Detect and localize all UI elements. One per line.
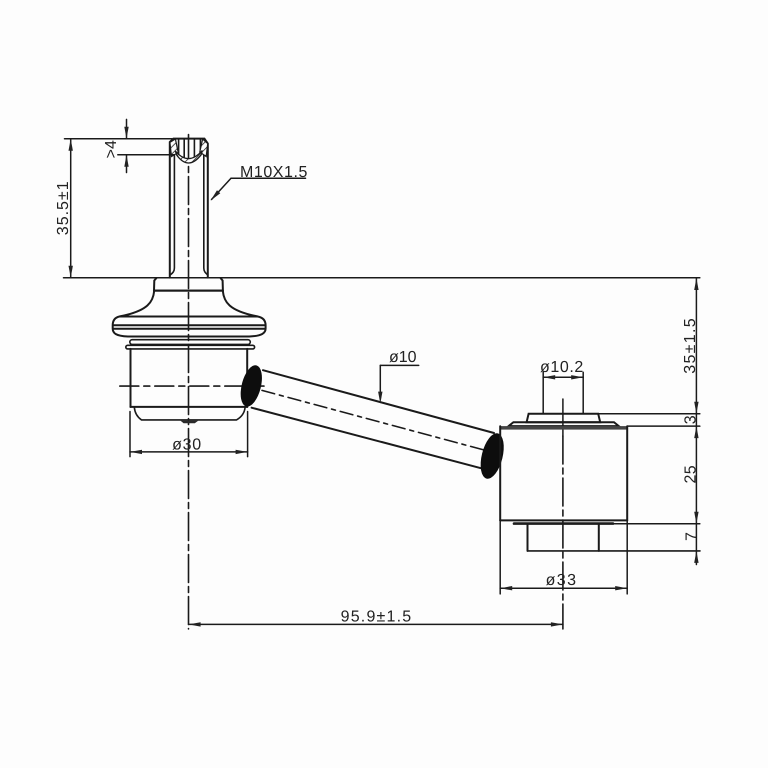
- svg-text:3: 3: [683, 415, 700, 424]
- housing bottom cap: [134, 407, 245, 420]
- housing cylinder bottom line: [130, 406, 247, 408]
- centerline vertical ball stud: [188, 135, 190, 629]
- bottom nub: [180, 421, 198, 424]
- collar bottom line: [154, 290, 223, 292]
- housing cylinder right side: [246, 349, 248, 407]
- svg-text:25: 25: [683, 465, 700, 483]
- bushing pin black ellipse right: [476, 431, 507, 481]
- svg-text:ø10: ø10: [389, 349, 417, 366]
- boot bell right curve: [223, 291, 258, 317]
- lower block right: [598, 524, 600, 551]
- housing cylinder left side: [130, 349, 132, 407]
- dimension ø10.2: [543, 376, 583, 378]
- dimension ø33 ext lines: [499, 520, 501, 594]
- svg-text:95.9±1.5: 95.9±1.5: [341, 609, 413, 626]
- collar block: [154, 278, 223, 291]
- lower block left: [527, 524, 529, 551]
- extension line for >4: [118, 154, 175, 156]
- link rod top line: [263, 370, 494, 433]
- stud thread outer profile: [170, 139, 208, 278]
- svg-text:35±1.5: 35±1.5: [682, 317, 699, 374]
- top extension line stud top: [65, 138, 173, 140]
- centerline horizontal ball housing: [120, 385, 264, 387]
- leader ø10: [380, 364, 418, 366]
- dimension 35.5±1 line: [70, 139, 72, 278]
- stud top right chamfer hatch: [200, 139, 208, 157]
- dimension ø33 line: [500, 587, 627, 589]
- svg-text:ø10.2: ø10.2: [540, 359, 584, 376]
- long shared extension line y=277.7: [64, 277, 700, 279]
- link rod bottom line: [252, 408, 485, 470]
- dimension 95.9±1.5 line: [189, 623, 563, 625]
- right bushing centerline: [562, 399, 564, 436]
- dimension ø30 ext lines: [129, 412, 131, 457]
- bushing cylinder bottom line: [500, 519, 627, 521]
- stud top left chamfer hatch: [170, 139, 178, 157]
- rim line upper: [113, 324, 265, 326]
- clamp ring 2: [126, 345, 255, 349]
- lower block bottom line extends to chain: [528, 550, 701, 552]
- bushing cylinder right side: [626, 426, 628, 520]
- bushing cylinder left side: [499, 426, 501, 520]
- right chain dimension line: [695, 278, 697, 565]
- leader M10X1.5: [231, 177, 306, 179]
- svg-text:35.5±1: 35.5±1: [55, 180, 72, 235]
- svg-text:ø33: ø33: [546, 572, 578, 589]
- dimension ø30 line: [130, 451, 248, 453]
- svg-text:ø30: ø30: [172, 436, 202, 453]
- bushing top dark band: [500, 426, 627, 430]
- ball pin black ellipse left: [237, 363, 266, 409]
- svg-text:7: 7: [684, 532, 701, 541]
- boot rim torus: [113, 317, 266, 337]
- stud top spline lines: [179, 139, 201, 159]
- boot bell left curve: [120, 291, 154, 317]
- stud cone bowl hatch: [175, 151, 202, 164]
- bushing cap step 1: [527, 414, 601, 422]
- right chain extension lines: [599, 413, 700, 415]
- right bushing stud sides / ext lines: [542, 372, 544, 413]
- link rod centerline: [262, 390, 498, 453]
- dimension >4 lines: [126, 119, 128, 138]
- bushing bottom dark line: [514, 522, 613, 525]
- stud thread inner lines: [171, 155, 175, 275]
- bushing cap step 2: [509, 422, 619, 426]
- svg-text:>4: >4: [103, 140, 120, 158]
- clamp ring 1: [130, 340, 251, 345]
- svg-text:M10X1.5: M10X1.5: [240, 164, 308, 181]
- rim line lower: [113, 328, 265, 330]
